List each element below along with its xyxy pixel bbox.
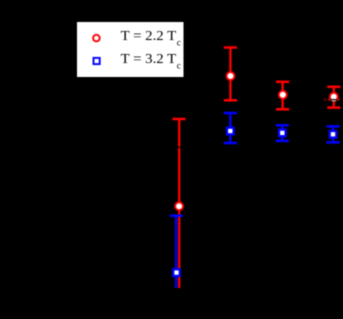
svg-text:c: c [177,39,181,49]
legend box [77,22,185,78]
errorbar red group4 [327,87,340,108]
legend marker red circle [93,35,100,42]
black line across group4 circle [330,99,337,100]
errorbar blue group4 [327,126,340,142]
marker red circle group4 [330,93,338,101]
red dash left of group4 circle [324,99,327,101]
errorbar blue group2 [224,113,237,143]
errorbar blue group3 [276,125,289,141]
errorbar red group3 [276,82,289,110]
dark notch on group1 red line [178,147,181,149]
marker blue square group4 [330,131,337,138]
marker red circle group2 [227,72,235,80]
svg-text:T = 2.2 T: T = 2.2 T [121,28,177,43]
marker blue square group3 [279,130,286,137]
marker blue square group2 [227,128,234,135]
legend marker blue square [94,58,100,64]
svg-text:c: c [177,61,181,71]
white sliver below line group4 [332,99,337,102]
errorbar blue group1 [170,216,183,288]
red stub line behind group4 circle [328,99,339,101]
marker blue square group1 [173,269,180,276]
svg-text:T = 3.2 T: T = 3.2 T [121,51,177,66]
marker red circle group3 [279,91,287,99]
marker red circle group1 [175,202,183,210]
errorbar red group2 [224,48,237,101]
errorbar red group1 [172,119,185,288]
